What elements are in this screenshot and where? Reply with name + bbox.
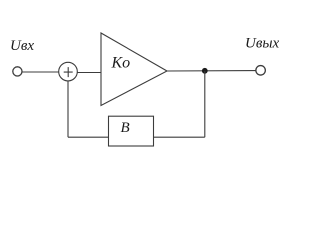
wire junction down to feedback [204, 71, 206, 137]
wire amplifier output to output terminal [167, 70, 256, 72]
svg-text:В: В [121, 120, 130, 136]
feedback block B rectangle [109, 116, 154, 146]
wire feedback left segment [68, 136, 109, 138]
node input terminal Uvx [13, 67, 22, 76]
svg-text:Kо: Kо [111, 55, 131, 72]
summing junction U1 [59, 62, 78, 81]
wire summer down to feedback [67, 81, 69, 137]
node output terminal Uvyx [256, 66, 266, 76]
wire feedback right segment [154, 136, 205, 138]
summing junction plus sign [64, 67, 73, 77]
svg-text:Uвых: Uвых [245, 36, 280, 52]
op-amp amplifier Ko triangle [101, 33, 167, 106]
junction node dot [202, 68, 208, 74]
svg-text:Uвх: Uвх [10, 38, 34, 54]
wire summer to amplifier [77, 72, 101, 74]
wire input terminal to summer [22, 71, 59, 73]
